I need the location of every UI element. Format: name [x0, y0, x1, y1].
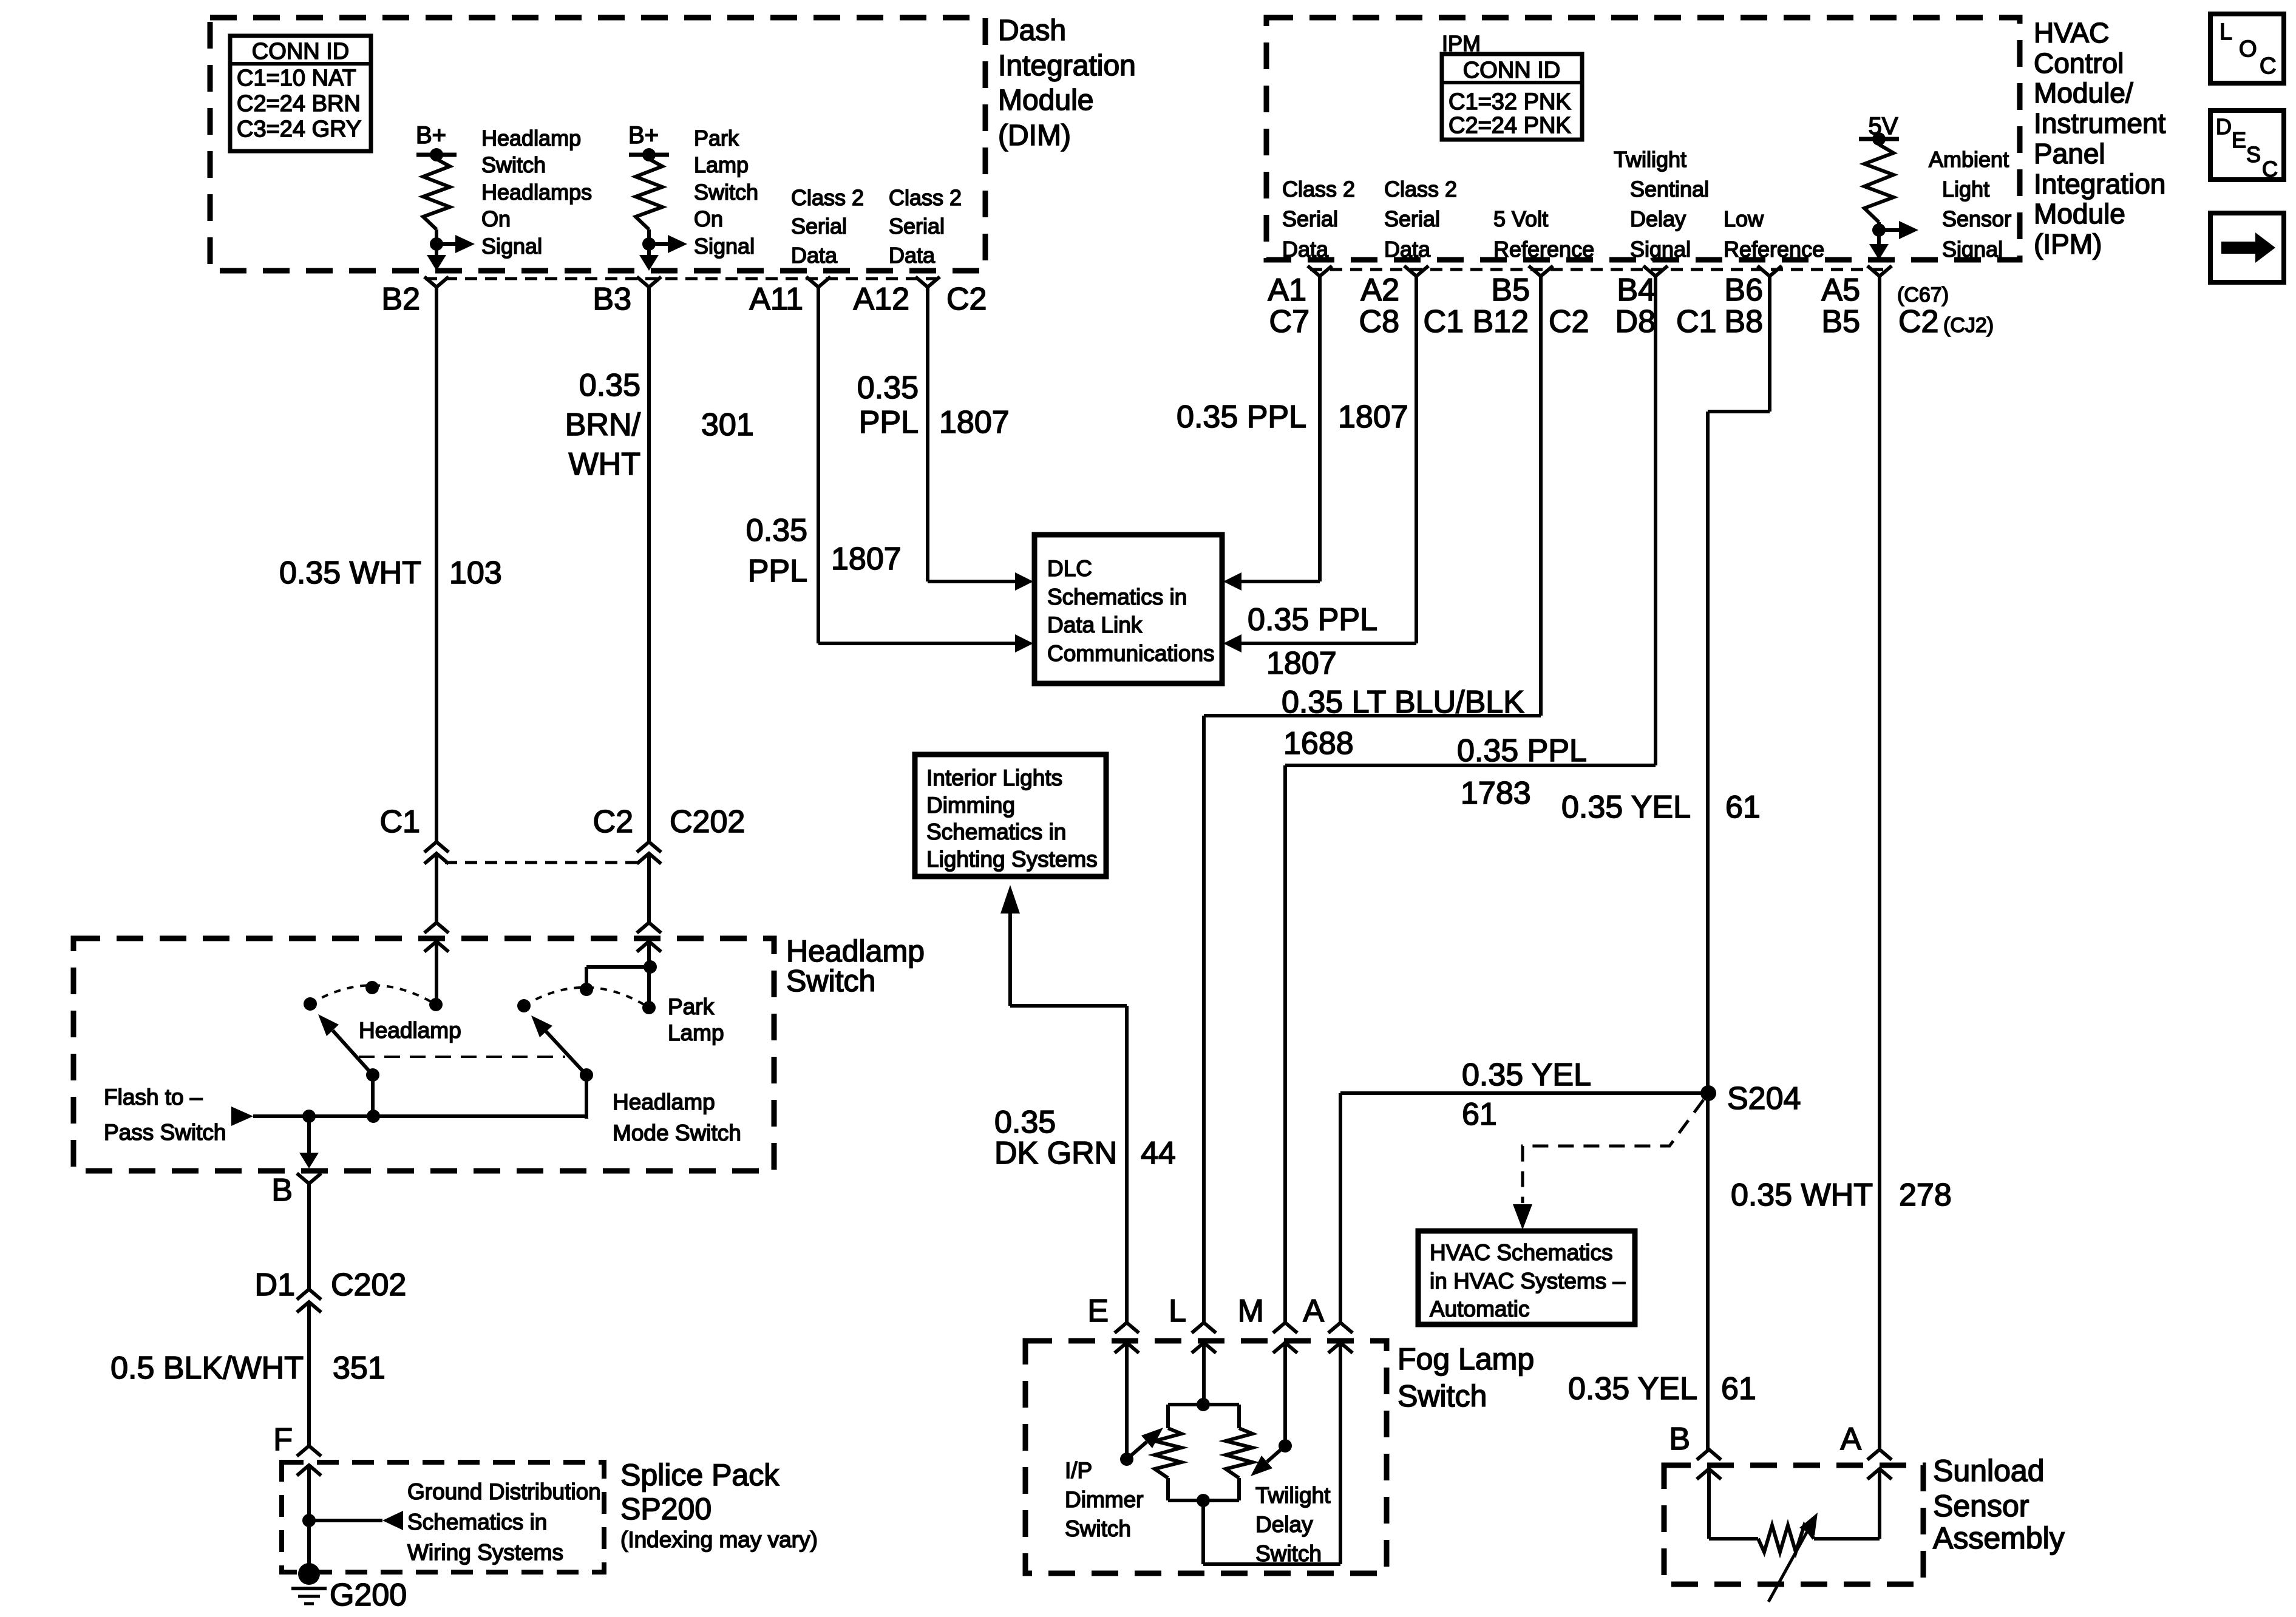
svg-text:Schematics in: Schematics in — [407, 1510, 547, 1534]
pin terminal A12 — [915, 277, 940, 287]
svg-text:C: C — [2262, 157, 2278, 181]
B+ bar 2 — [629, 153, 669, 157]
svg-text:0.35 PPL: 0.35 PPL — [1177, 399, 1306, 435]
svg-text:C2: C2 — [946, 282, 987, 317]
wire R2 to boundary — [647, 244, 651, 257]
wire B6 net 61 — [1768, 276, 1771, 412]
wire R3 to boundary — [1877, 230, 1881, 246]
svg-text:(IPM): (IPM) — [2034, 228, 2102, 260]
IPM CONN ID table — [1442, 54, 1582, 140]
svg-text:CONN ID: CONN ID — [1463, 58, 1560, 83]
svg-text:Lamp: Lamp — [668, 1020, 724, 1045]
svg-text:Lighting Systems: Lighting Systems — [926, 847, 1098, 872]
wire yel 61 to S204 — [1340, 1091, 1708, 1095]
svg-text:S204: S204 — [1727, 1081, 1801, 1116]
arrow into DLC lower-right — [1223, 634, 1241, 653]
svg-text:Headlamp: Headlamp — [613, 1090, 715, 1114]
headlamp rocker contact M — [365, 981, 379, 994]
svg-text:1688: 1688 — [1283, 726, 1354, 761]
wire wiper to bus — [371, 1075, 375, 1119]
park wiper arrow — [546, 1031, 586, 1075]
Dash Integration Module (DIM) box — [210, 18, 985, 271]
svg-text:Dimming: Dimming — [926, 793, 1015, 818]
interior lights box — [915, 754, 1106, 876]
ground symbol — [291, 1587, 327, 1590]
svg-text:A12: A12 — [853, 282, 909, 317]
svg-text:C2: C2 — [593, 804, 633, 839]
park feed branch — [586, 965, 649, 969]
svg-text:L: L — [2220, 19, 2232, 45]
svg-text:Control: Control — [2034, 47, 2124, 79]
terminal A outer — [1328, 1323, 1353, 1333]
terminal C1 at box — [424, 923, 449, 933]
svg-text:0.35 LT BLU/BLK: 0.35 LT BLU/BLK — [1282, 685, 1524, 720]
wire C202 to contact — [647, 967, 651, 1008]
svg-text:A2: A2 — [1360, 273, 1399, 308]
svg-text:Delay: Delay — [1255, 1512, 1313, 1537]
svg-text:Flash to –: Flash to – — [104, 1085, 203, 1110]
svg-text:B8: B8 — [1724, 304, 1763, 339]
svg-text:61: 61 — [1721, 1371, 1756, 1406]
svg-text:A: A — [1303, 1293, 1324, 1329]
svg-text:A11: A11 — [749, 282, 803, 317]
svg-text:0.35 YEL: 0.35 YEL — [1462, 1057, 1591, 1093]
LOC box — [2210, 14, 2284, 83]
svg-text:Fog Lamp: Fog Lamp — [1398, 1342, 1534, 1376]
down arrow at B2 — [427, 255, 446, 271]
resistor network top — [1168, 1403, 1239, 1406]
headlamp rocker contact R — [429, 998, 443, 1011]
wire R3 bottom — [1877, 222, 1881, 230]
svg-text:Interior Lights: Interior Lights — [926, 765, 1062, 790]
svg-text:Switch: Switch — [1398, 1379, 1487, 1413]
park rocker contact R — [642, 1001, 656, 1014]
svg-text:Data: Data — [889, 243, 936, 268]
svg-text:C3=24 GRY: C3=24 GRY — [237, 117, 361, 142]
svg-text:0.35: 0.35 — [746, 513, 807, 548]
terminal F — [297, 1446, 321, 1456]
svg-text:Assembly: Assembly — [1933, 1521, 2065, 1555]
svg-text:WHT: WHT — [569, 447, 640, 482]
arrow box — [2210, 213, 2284, 282]
svg-text:B+: B+ — [628, 122, 659, 149]
svg-text:B: B — [271, 1173, 293, 1208]
svg-text:Reference: Reference — [1724, 237, 1824, 262]
terminal A outer — [1867, 1449, 1892, 1460]
resistor network bottom — [1166, 1478, 1170, 1500]
headlamp rocker arc — [310, 985, 436, 1005]
svg-text:C1=10 NAT: C1=10 NAT — [237, 66, 356, 91]
svg-text:Serial: Serial — [791, 214, 847, 239]
svg-text:Switch: Switch — [1255, 1541, 1322, 1566]
down arrow at A5 — [1869, 244, 1889, 260]
svg-text:Module: Module — [998, 84, 1093, 117]
pin terminal B3 — [637, 277, 661, 287]
splice junction dot — [302, 1514, 316, 1527]
arrow into DLC upper-left — [1015, 572, 1033, 591]
svg-text:C7: C7 — [1269, 304, 1309, 339]
splice pack SP200 box — [282, 1462, 604, 1572]
svg-text:Park: Park — [694, 126, 739, 151]
pin terminal B4 — [1643, 266, 1668, 276]
svg-text:Signal: Signal — [1630, 237, 1691, 262]
svg-text:D1: D1 — [255, 1267, 295, 1303]
svg-text:Low: Low — [1724, 206, 1764, 231]
node dot park feed — [644, 960, 657, 974]
svg-text:Schematics in: Schematics in — [926, 819, 1066, 844]
terminal M outer — [1273, 1323, 1297, 1333]
resistor R1 headlamp-on pullup — [423, 159, 450, 229]
arrow to interior lights — [1008, 913, 1012, 1006]
wire A11 to DLC — [817, 287, 820, 643]
svg-text:Pass Switch: Pass Switch — [104, 1120, 226, 1145]
svg-text:F: F — [273, 1422, 293, 1457]
wire B to D1 — [307, 1184, 311, 1289]
svg-text:B3: B3 — [593, 282, 631, 317]
svg-text:C2: C2 — [1549, 304, 1589, 339]
svg-text:Wiring Systems: Wiring Systems — [407, 1540, 563, 1565]
wire dk grn 44 — [1010, 1004, 1127, 1008]
svg-text:Data: Data — [791, 243, 838, 268]
signal arrow R3 — [1879, 228, 1900, 232]
svg-text:B5: B5 — [1821, 304, 1860, 339]
svg-text:103: 103 — [449, 555, 502, 591]
svg-text:0.35: 0.35 — [857, 370, 919, 405]
node dot network top — [1197, 1398, 1210, 1411]
svg-text:1807: 1807 — [939, 405, 1010, 440]
svg-text:C2=24 PNK: C2=24 PNK — [1449, 113, 1571, 138]
svg-text:0.35: 0.35 — [994, 1105, 1056, 1140]
svg-text:0.35 WHT: 0.35 WHT — [279, 555, 421, 591]
node dot R2 — [642, 237, 656, 251]
svg-text:351: 351 — [333, 1351, 385, 1386]
wire C1 to box — [435, 853, 438, 923]
svg-text:Splice Pack: Splice Pack — [620, 1458, 779, 1492]
delay wiper pivot — [1279, 1439, 1292, 1453]
svg-text:Communications: Communications — [1047, 641, 1215, 666]
terminal B below box — [297, 1173, 321, 1184]
svg-text:Module/: Module/ — [2034, 77, 2133, 109]
svg-text:Park: Park — [668, 994, 715, 1019]
svg-text:Light: Light — [1942, 177, 1989, 202]
photoresistor arrow — [1768, 1532, 1807, 1602]
svg-text:B4: B4 — [1617, 273, 1656, 308]
rocker coupling dashed — [359, 1056, 565, 1058]
svg-text:CONN ID: CONN ID — [252, 39, 349, 64]
svg-text:0.35 YEL: 0.35 YEL — [1568, 1371, 1697, 1406]
node dot B+1 — [430, 148, 443, 161]
svg-text:Headlamps: Headlamps — [481, 180, 592, 205]
svg-text:5 Volt: 5 Volt — [1493, 206, 1548, 231]
svg-text:Delay: Delay — [1630, 206, 1686, 231]
svg-text:Serial: Serial — [889, 214, 945, 239]
node dot network bottom — [1197, 1494, 1210, 1507]
svg-text:1783: 1783 — [1461, 776, 1531, 811]
terminal E outer — [1115, 1323, 1139, 1333]
terminal B inner — [1697, 1469, 1721, 1479]
terminal E inner — [1115, 1343, 1139, 1353]
svg-text:HVAC: HVAC — [2034, 17, 2109, 49]
svg-text:PPL: PPL — [859, 405, 919, 440]
svg-text:D: D — [2216, 114, 2232, 139]
terminal L outer — [1192, 1323, 1216, 1333]
down arrow at B3 — [639, 255, 659, 271]
node dot R1 — [430, 237, 443, 251]
fog lamp switch box — [1025, 1341, 1387, 1573]
svg-text:A5: A5 — [1821, 273, 1860, 308]
svg-text:Integration: Integration — [998, 50, 1136, 82]
svg-text:A1: A1 — [1268, 273, 1306, 308]
svg-text:Dash: Dash — [998, 15, 1066, 47]
delay wiper arrow — [1267, 1446, 1285, 1462]
svg-text:Signal: Signal — [694, 234, 755, 259]
svg-text:Class 2: Class 2 — [1384, 177, 1457, 202]
bus junction dot B — [302, 1110, 316, 1123]
node dot R3 — [1872, 223, 1886, 237]
wire B drop — [307, 1116, 311, 1153]
svg-text:Data: Data — [1282, 237, 1329, 262]
svg-text:301: 301 — [701, 407, 754, 442]
headlamp wiper arrow — [333, 1031, 373, 1075]
svg-text:1807: 1807 — [1266, 646, 1337, 681]
svg-text:HVAC Schematics: HVAC Schematics — [1430, 1240, 1613, 1265]
svg-text:E: E — [2232, 127, 2246, 152]
wire R1 bottom — [435, 229, 438, 244]
svg-text:(C67): (C67) — [1897, 283, 1949, 307]
svg-text:Automatic: Automatic — [1430, 1297, 1530, 1321]
wire B2 to C1 connector — [435, 287, 438, 842]
svg-text:B2: B2 — [381, 282, 420, 317]
svg-text:G200: G200 — [330, 1578, 407, 1613]
svg-text:DLC: DLC — [1047, 556, 1092, 581]
pin terminal B6 — [1758, 266, 1782, 276]
svg-text:278: 278 — [1899, 1178, 1952, 1213]
svg-text:Mode Switch: Mode Switch — [613, 1120, 741, 1145]
flash-to-pass arrow — [231, 1107, 253, 1126]
svg-text:Integration: Integration — [2034, 168, 2165, 200]
svg-text:D8: D8 — [1615, 304, 1656, 339]
B+ bar 1 — [416, 153, 457, 157]
wire M inner — [1283, 1343, 1287, 1446]
bus junction dot wiper — [367, 1110, 380, 1123]
wire R1 to boundary — [435, 244, 438, 257]
svg-text:Panel: Panel — [2034, 138, 2105, 169]
svg-text:B5: B5 — [1491, 273, 1530, 308]
svg-text:Signal: Signal — [1942, 237, 2003, 262]
svg-text:C1 B12: C1 B12 — [1424, 304, 1529, 339]
headlamp rocker contact L — [304, 997, 317, 1011]
svg-text:Switch: Switch — [786, 964, 875, 998]
svg-text:1807: 1807 — [1338, 399, 1408, 435]
svg-text:61: 61 — [1725, 790, 1761, 825]
svg-text:C: C — [2260, 53, 2276, 79]
svg-text:Sensor: Sensor — [1942, 206, 2011, 231]
svg-text:Ground Distribution: Ground Distribution — [407, 1479, 601, 1504]
svg-text:1807: 1807 — [831, 541, 902, 577]
svg-text:Signal: Signal — [481, 234, 542, 259]
svg-text:B+: B+ — [416, 122, 446, 149]
svg-text:0.35 PPL: 0.35 PPL — [1457, 733, 1587, 768]
svg-text:44: 44 — [1141, 1136, 1176, 1171]
svg-text:Lamp: Lamp — [694, 152, 749, 177]
svg-text:S: S — [2246, 142, 2261, 167]
DLC schematics box — [1034, 535, 1222, 683]
svg-text:Sentinal: Sentinal — [1630, 177, 1709, 202]
resistor R4 I/P dimmer — [1155, 1428, 1181, 1478]
svg-text:E: E — [1087, 1293, 1109, 1329]
sunload sensor box — [1664, 1465, 1923, 1584]
svg-text:A: A — [1840, 1422, 1861, 1457]
svg-text:in HVAC Systems –: in HVAC Systems – — [1430, 1269, 1626, 1293]
dimmer wiper pivot — [1120, 1453, 1133, 1466]
wire park wiper to bus — [585, 1075, 588, 1119]
wire A2 to DLC — [1415, 276, 1418, 643]
arrow into DLC lower-left — [1015, 634, 1033, 653]
svg-text:Twilight: Twilight — [1614, 147, 1686, 172]
wire B4 net 1783 — [1654, 276, 1657, 765]
svg-text:SP200: SP200 — [620, 1492, 712, 1526]
HVAC schematics box — [1418, 1231, 1635, 1324]
svg-text:Switch: Switch — [481, 152, 546, 177]
ground G200 circle — [298, 1563, 320, 1585]
terminal A inner — [1328, 1343, 1353, 1353]
IPM harness dashed line — [1310, 268, 1889, 271]
svg-text:Headlamp: Headlamp — [786, 934, 925, 968]
svg-text:On: On — [481, 206, 511, 231]
svg-text:M: M — [1238, 1293, 1264, 1329]
inline connector C1 — [424, 842, 449, 852]
svg-text:I/P: I/P — [1065, 1458, 1092, 1483]
resistor R2 park-lamp-on pullup — [636, 159, 662, 229]
svg-text:C202: C202 — [331, 1267, 406, 1303]
C202 connector dashed line — [445, 861, 638, 864]
svg-text:C8: C8 — [1359, 304, 1399, 339]
HVAC/IPM module box — [1266, 18, 2020, 260]
pin terminal A1 — [1308, 266, 1332, 276]
svg-text:61: 61 — [1462, 1097, 1497, 1132]
svg-text:0.35: 0.35 — [579, 368, 640, 403]
park rocker contact M — [580, 983, 593, 996]
svg-text:Sunload: Sunload — [1933, 1454, 2045, 1488]
svg-text:DK GRN: DK GRN — [994, 1136, 1117, 1171]
svg-text:Headlamp: Headlamp — [481, 126, 581, 151]
svg-text:C1: C1 — [380, 804, 420, 839]
svg-text:Data: Data — [1384, 237, 1431, 262]
svg-text:(DIM): (DIM) — [998, 120, 1071, 152]
svg-text:Sensor: Sensor — [1933, 1489, 2029, 1523]
svg-text:BRN/: BRN/ — [565, 407, 641, 442]
arrow icon — [2221, 242, 2255, 254]
svg-text:C2: C2 — [1898, 304, 1938, 339]
wire to G200 — [307, 1465, 311, 1564]
resistor R5 twilight delay — [1226, 1428, 1252, 1478]
wire C1 inside — [435, 941, 438, 1005]
svg-text:Serial: Serial — [1384, 206, 1440, 231]
terminal M inner — [1273, 1343, 1297, 1353]
dashed ref to HVAC schematics — [1523, 1100, 1703, 1203]
headlamp wiper pivot — [366, 1068, 379, 1082]
wire R2 bottom — [647, 229, 651, 244]
svg-text:C1: C1 — [1676, 304, 1716, 339]
svg-text:C1=32 PNK: C1=32 PNK — [1449, 89, 1571, 115]
svg-text:B: B — [1669, 1422, 1690, 1457]
wire B3 to C2 connector — [647, 287, 651, 842]
svg-text:Instrument: Instrument — [2034, 107, 2166, 139]
svg-text:(CJ2): (CJ2) — [1943, 314, 1994, 337]
svg-text:0.35 PPL: 0.35 PPL — [1248, 602, 1377, 637]
arrow into DLC upper-right — [1223, 572, 1241, 591]
svg-text:Dimmer: Dimmer — [1065, 1487, 1143, 1512]
terminal into splice pack — [297, 1465, 321, 1476]
splice S204 — [1700, 1085, 1716, 1101]
park rocker arc — [524, 988, 649, 1008]
wire C202 inside — [647, 941, 651, 967]
terminal B outer — [1697, 1449, 1721, 1460]
svg-text:Class 2: Class 2 — [889, 185, 962, 210]
wire A5 net 278 — [1878, 276, 1881, 1449]
5V bar — [1859, 137, 1899, 141]
node dot 5V — [1872, 132, 1886, 146]
pin terminal A11 — [806, 277, 830, 287]
svg-text:(Indexing may vary): (Indexing may vary) — [620, 1527, 818, 1552]
svg-text:Data Link: Data Link — [1047, 612, 1143, 637]
svg-text:Module: Module — [2034, 198, 2125, 229]
park wiper pivot — [580, 1068, 593, 1082]
svg-text:0.35 YEL: 0.35 YEL — [1561, 790, 1691, 825]
svg-text:Class 2: Class 2 — [1282, 177, 1355, 202]
wire A12 to DLC — [926, 287, 929, 581]
splice ref arrow — [309, 1519, 382, 1522]
DIM CONN ID table — [230, 36, 371, 151]
svg-text:Headlamp: Headlamp — [359, 1018, 461, 1043]
svg-text:0.5 BLK/WHT: 0.5 BLK/WHT — [110, 1351, 304, 1386]
svg-text:L: L — [1169, 1293, 1186, 1329]
resistor R3 ambient light sensor — [1864, 144, 1894, 222]
svg-text:Reference: Reference — [1493, 237, 1594, 262]
svg-text:Switch: Switch — [694, 180, 758, 205]
wire D1 to F — [307, 1302, 311, 1446]
wire E inner — [1125, 1343, 1129, 1459]
inline connector D1/C202 — [297, 1289, 321, 1300]
terminal A inner — [1867, 1469, 1892, 1479]
node dot B+2 — [642, 148, 656, 161]
signal arrow R2 — [649, 242, 669, 246]
svg-text:Schematics in: Schematics in — [1047, 585, 1187, 609]
svg-text:PPL: PPL — [748, 554, 807, 589]
park rocker contact L — [517, 999, 531, 1012]
inline connector C2/C202 — [637, 842, 661, 852]
svg-text:Switch: Switch — [1065, 1516, 1131, 1541]
wire L inner — [1202, 1343, 1206, 1405]
dimmer wiper arrow — [1127, 1442, 1147, 1459]
svg-text:On: On — [694, 206, 723, 231]
svg-text:O: O — [2239, 36, 2257, 62]
pin terminal B2 — [424, 277, 449, 287]
svg-text:0.35 WHT: 0.35 WHT — [1731, 1178, 1873, 1213]
wire B5 net 1688 — [1539, 276, 1543, 716]
photoresistor R6 — [1758, 1525, 1814, 1552]
terminal C202 at box — [637, 923, 661, 933]
pin terminal B5 — [1529, 266, 1553, 276]
svg-text:B6: B6 — [1724, 273, 1763, 308]
down arrow at B exit — [299, 1153, 319, 1168]
DIM harness dashed line — [425, 277, 938, 280]
signal arrow R1 — [436, 242, 457, 246]
wire bottom to pin A — [1201, 1500, 1205, 1564]
wire C202 to box — [647, 853, 651, 923]
svg-text:C2=24 BRN: C2=24 BRN — [237, 91, 361, 117]
svg-text:C202: C202 — [670, 804, 745, 839]
